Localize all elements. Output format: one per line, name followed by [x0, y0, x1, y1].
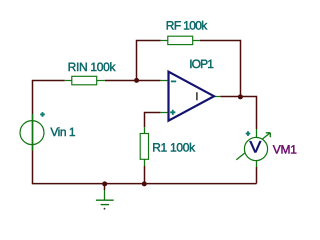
output node junction dot	[238, 94, 243, 99]
wire: RF right down to output node	[200, 41, 241, 98]
wire: R1 bottom to bottom rail	[144, 166, 146, 184]
op-amp IOP1	[160, 72, 220, 121]
wire: top-left horizontal to RIN	[32, 80, 65, 82]
svg-text:VM1: VM1	[273, 143, 297, 157]
node A junction dot	[134, 78, 139, 83]
svg-text:Vin 1: Vin 1	[50, 125, 75, 139]
R1 bottom node junction dot	[142, 181, 147, 186]
ground node junction dot	[102, 181, 107, 186]
wire: output node to VM1 top	[220, 97, 256, 130]
wire: feedback up and right to RF	[137, 41, 161, 81]
wire: bottom rail	[32, 183, 257, 185]
ground	[96, 190, 114, 210]
svg-text:IOP1: IOP1	[189, 57, 214, 71]
resistor RF	[161, 36, 200, 44]
voltmeter VM1	[236, 129, 270, 167]
svg-text:RIN 100k: RIN 100k	[68, 60, 117, 74]
wire: plus input to R1 top	[145, 113, 161, 128]
svg-text:R1 100k: R1 100k	[152, 140, 196, 154]
wire: node A to op-amp minus	[137, 80, 161, 82]
resistor R1	[140, 127, 148, 166]
wire: VM1 bottom to bottom rail	[256, 167, 258, 184]
wire: ground stub	[104, 184, 106, 190]
resistor RIN	[65, 76, 105, 85]
voltage source Vin 1	[20, 112, 45, 150]
wire: RIN to node A	[105, 80, 137, 82]
wire: left loop vertical	[32, 81, 34, 184]
svg-text:V: V	[249, 139, 261, 157]
svg-text:RF 100k: RF 100k	[166, 19, 208, 33]
